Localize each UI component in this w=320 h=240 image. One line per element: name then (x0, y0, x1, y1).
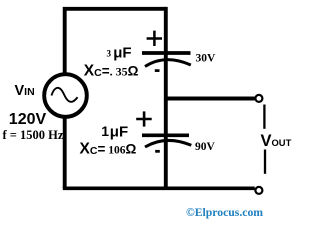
svg-text:120V: 120V (9, 111, 47, 128)
capacitor C1 plus sign (147, 31, 162, 46)
capacitor C1 minus sign (155, 69, 160, 72)
capacitor C1 (3uF) (142, 53, 191, 67)
wire top rail (65, 9, 166, 74)
wire Vout upper segment (263, 105, 265, 129)
capacitor C2 plus sign (136, 111, 152, 126)
svg-text:©Elprocus.com: ©Elprocus.com (186, 206, 263, 219)
AC source VIN (44, 74, 87, 117)
svg-text:f = 1500 Hz: f = 1500 Hz (3, 128, 64, 142)
wire right branch vertical (164, 7, 168, 188)
svg-text:VIN: VIN (15, 83, 35, 99)
wire Vout lower segment (264, 150, 266, 174)
svg-text:90V: 90V (195, 141, 216, 153)
capacitor C2 minus sign (155, 150, 160, 153)
svg-text:XC=. 35Ω: XC=. 35Ω (84, 62, 139, 79)
svg-text:3: 3 (107, 49, 112, 59)
wire bottom rail (63, 186, 255, 190)
svg-text:μF: μF (110, 124, 128, 141)
svg-text:1: 1 (101, 123, 109, 139)
wire left vertical lower (63, 117, 67, 189)
svg-text:30V: 30V (196, 52, 217, 64)
output terminal bottom (255, 187, 262, 194)
wire middle node to output (164, 97, 255, 101)
capacitor C2 (1uF) (142, 135, 191, 147)
output terminal top (255, 95, 262, 102)
svg-text:μF: μF (113, 45, 131, 62)
